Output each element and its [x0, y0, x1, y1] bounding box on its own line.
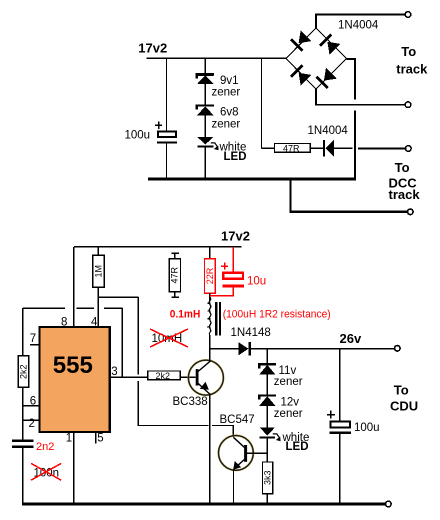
- wire supply rail (bottom circuit): [74, 246, 242, 248]
- wire top rail y=58: [147, 57, 287, 59]
- pin 7 stub: [30, 344, 40, 346]
- svg-text:2k2: 2k2: [18, 364, 28, 379]
- svg-text:6: 6: [30, 395, 36, 407]
- svg-text:3: 3: [111, 366, 117, 378]
- wire 2n2 to ground bus: [22, 448, 24, 504]
- wire 2k2 to BC338 base: [180, 376, 195, 378]
- capacitor 10u lower lead: [210, 287, 233, 295]
- svg-text:1N4148: 1N4148: [231, 327, 271, 339]
- wire between zeners: [204, 84, 206, 106]
- svg-text:2k2: 2k2: [156, 371, 171, 381]
- svg-text:zener: zener: [274, 376, 303, 388]
- pin 5 stub: [95, 432, 97, 444]
- capacitor 100u (bottom) plus sign: [327, 411, 335, 419]
- terminal to DCC track (lower): [408, 209, 414, 215]
- LED white (top): [197, 137, 213, 145]
- LED white (bottom) pointer arrow: [273, 434, 280, 438]
- svg-text:LED: LED: [286, 441, 309, 453]
- bridge diode top-right: [319, 33, 341, 55]
- wire feedback drop (with gap over pin3 wire): [138, 297, 208, 425]
- resistor 1M: [93, 255, 105, 287]
- svg-text:1: 1: [66, 433, 72, 445]
- transistor Q2 BC547: [219, 436, 254, 471]
- zener 11v: [259, 364, 276, 368]
- svg-text:3k3: 3k3: [262, 471, 272, 486]
- svg-text:zener: zener: [274, 408, 303, 420]
- capacitor 100u (top) plus sign: [155, 122, 162, 129]
- wire bus to lower DCC terminal: [291, 180, 408, 212]
- capacitor 100u (bottom) lower lead: [339, 434, 341, 504]
- svg-text:555: 555: [53, 352, 93, 379]
- pin 1 wire to ground bus: [73, 432, 75, 504]
- svg-text:1N4004: 1N4004: [338, 20, 379, 32]
- capacitor 10u plus sign: [221, 262, 228, 269]
- wire BC547 base to LED/3k3 node: [247, 452, 267, 454]
- wire diode to DCC terminal: [334, 147, 353, 149]
- ground bus (top circuit, thick): [148, 177, 356, 180]
- wire to 47R: [262, 147, 275, 149]
- svg-text:47R: 47R: [283, 144, 300, 154]
- capacitor 2n2 plates: [12, 439, 34, 441]
- svg-text:To: To: [401, 44, 416, 59]
- pin 2 stub: [23, 419, 40, 421]
- svg-text:22R: 22R: [205, 267, 215, 284]
- svg-text:zener: zener: [212, 119, 241, 131]
- wire BC547 emitter to ground bus: [233, 470, 235, 505]
- diode 1N4148: [238, 342, 248, 355]
- capacitor 100u (bottom) upper lead: [339, 349, 341, 421]
- svg-text:LED: LED: [224, 151, 247, 163]
- terminal to CDU (bottom): [386, 501, 392, 507]
- svg-text:17v2: 17v2: [221, 229, 250, 244]
- svg-text:(100uH 1R2 resistance): (100uH 1R2 resistance): [223, 309, 331, 321]
- terminal to track (lower): [405, 102, 411, 108]
- wire zener stack upper lead: [204, 58, 206, 75]
- cross over 100n: [31, 463, 61, 480]
- svg-text:8: 8: [61, 317, 67, 329]
- svg-text:1M: 1M: [93, 265, 103, 278]
- wire rail to 1M: [97, 247, 99, 255]
- wire zener to LED: [204, 115, 206, 137]
- capacitor 100u (bottom) plates: [331, 422, 350, 428]
- ground bus (bottom circuit, thick): [22, 503, 386, 506]
- svg-text:100u: 100u: [125, 130, 151, 142]
- wire 2k2 to 2n2: [22, 387, 24, 439]
- svg-text:BC547: BC547: [220, 414, 255, 426]
- svg-text:17v2: 17v2: [138, 40, 167, 55]
- inductor core bars: [215, 302, 218, 335]
- wire collector node to diode: [210, 348, 239, 350]
- wire LED to 3k3: [266, 439, 268, 462]
- transistor Q1 BC338: [188, 360, 223, 395]
- svg-text:BC338: BC338: [173, 396, 208, 408]
- pin 6 stub: [23, 405, 40, 407]
- wire 47R to diode: [310, 147, 323, 149]
- svg-text:zener: zener: [212, 87, 241, 99]
- svg-text:2n2: 2n2: [36, 441, 54, 453]
- svg-text:6v8: 6v8: [220, 107, 239, 119]
- svg-text:To: To: [395, 160, 410, 175]
- bridge rectifier (1N4004 x4): [286, 28, 347, 89]
- svg-text:47R: 47R: [169, 266, 179, 283]
- wire BC338 collector up to inductor node: [209, 349, 211, 362]
- wire emitter link to BC547 collector: [212, 426, 233, 438]
- wire diode to 26v terminal: [251, 348, 395, 350]
- resistor 3k3: [263, 462, 273, 494]
- terminal 26v: [395, 346, 401, 352]
- op-amp U1 555 timer body: [40, 327, 110, 432]
- wire left column down to 2k2: [22, 308, 24, 356]
- capacitor 10u (red) upper lead: [232, 247, 234, 272]
- wire 1M to pin 4: [97, 287, 99, 327]
- svg-text:0.1mH: 0.1mH: [170, 309, 201, 321]
- wire between zeners (bottom): [266, 374, 268, 395]
- wire right bridge vertex down (thick): [347, 59, 356, 179]
- LED white (bottom): [260, 427, 276, 435]
- svg-text:11v: 11v: [279, 365, 297, 377]
- svg-text:track: track: [396, 62, 428, 77]
- wire 22R to inductor: [209, 293, 211, 301]
- svg-text:2: 2: [29, 418, 35, 430]
- wire zener column upper: [266, 349, 268, 365]
- LED white (top) pointer arrow: [211, 143, 218, 147]
- wire bridge top vertex to track terminal: [316, 15, 405, 29]
- wire 1M junction to feedback drop: [98, 296, 138, 298]
- svg-text:CDU: CDU: [390, 399, 418, 414]
- wire LED to bottom bus: [204, 148, 206, 178]
- wire threshold link (gaps over pin8/pin4 wires): [23, 307, 123, 309]
- wire 47R branch vertical: [261, 58, 263, 148]
- wire 100u cap lower lead: [166, 144, 168, 178]
- resistor 22R (red): [205, 259, 216, 293]
- resistor 2k2 (left): [18, 356, 29, 388]
- bridge diode top-left: [290, 30, 312, 52]
- zener 12v: [259, 396, 276, 400]
- svg-text:100u: 100u: [354, 422, 380, 434]
- wire 100u cap upper lead: [166, 58, 168, 131]
- svg-text:track: track: [389, 187, 421, 202]
- svg-text:To: To: [394, 382, 409, 397]
- diode 1N4004 (DCC feed): [323, 140, 325, 157]
- cross over 10mH: [150, 329, 188, 347]
- terminal to DCC track (upper): [406, 146, 412, 152]
- svg-text:1N4004: 1N4004: [308, 125, 349, 137]
- wire zener to LED (bottom): [266, 406, 268, 428]
- wire inductor to collector node: [209, 336, 211, 349]
- wire link down to pin3 node: [121, 308, 123, 377]
- bridge edges: [286, 28, 347, 89]
- inductor 0.1mH coil (freehand wiggle): [209, 296, 211, 337]
- resistor 47R (floating alternative): [171, 252, 179, 254]
- terminal to track (upper): [405, 12, 411, 18]
- capacitor 100u (top) plates: [158, 131, 176, 137]
- zener 9v1: [197, 74, 214, 78]
- svg-text:5: 5: [97, 433, 103, 445]
- bridge diode bottom-left: [290, 64, 312, 86]
- wire rail to pin 8: [73, 247, 75, 327]
- wire 3k3 to ground bus: [266, 494, 268, 504]
- svg-text:4: 4: [91, 317, 98, 329]
- resistor 2k2 (base): [148, 371, 181, 380]
- capacitor 10u plates: [223, 273, 243, 279]
- bridge diode bottom-right: [315, 68, 337, 90]
- svg-text:10u: 10u: [247, 276, 266, 288]
- wire BC338 emitter down to ground bus: [209, 395, 211, 504]
- svg-text:12v: 12v: [281, 397, 300, 409]
- svg-text:26v: 26v: [340, 331, 362, 346]
- wire bridge bottom vertex to track terminal: [316, 89, 405, 105]
- svg-text:7: 7: [30, 333, 36, 345]
- zener 6v8: [197, 106, 214, 110]
- resistor 22R (red) top lead: [209, 247, 211, 259]
- resistor 47R (top circuit): [275, 144, 311, 153]
- svg-text:9v1: 9v1: [220, 75, 239, 87]
- pin 3 wire: [110, 376, 148, 378]
